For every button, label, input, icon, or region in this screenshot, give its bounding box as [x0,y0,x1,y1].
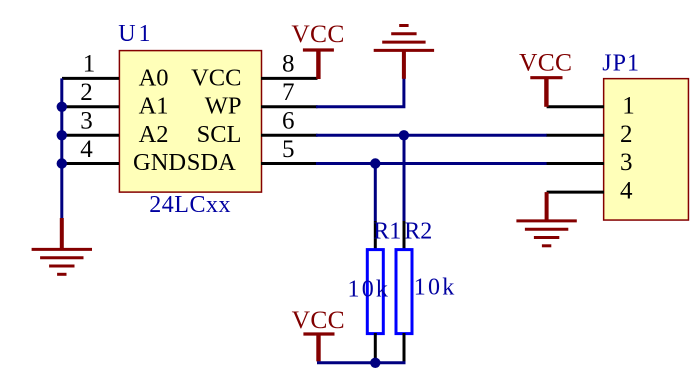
svg-text:10k: 10k [414,275,457,301]
svg-text:4: 4 [620,178,633,205]
component U1 body [119,51,261,193]
svg-text:VCC: VCC [191,64,241,91]
svg-text:7: 7 [282,79,295,106]
ground symbol top (inverted, WP) [374,26,434,79]
svg-text:SCL: SCL [197,121,242,148]
svg-text:JP1: JP1 [602,50,640,76]
JP1 pin 2 stub [547,134,604,137]
power VCC top (U1 pin 8) [291,19,344,79]
svg-text:10k: 10k [348,277,391,303]
ground symbol left [32,218,92,274]
wire R2 upper lead (net part) [403,135,406,221]
svg-text:8: 8 [282,51,295,78]
svg-text:24LCxx: 24LCxx [149,192,231,218]
U1 pin 7 stub [261,105,318,108]
svg-text:WP: WP [205,93,242,120]
svg-text:3: 3 [620,149,633,176]
svg-text:VCC: VCC [519,48,572,77]
svg-text:SDA: SDA [187,149,236,176]
svg-text:A0: A0 [139,64,169,91]
junction bus-pin4 [57,158,67,168]
svg-text:4: 4 [80,136,93,163]
power VCC at JP1 pin 1 [519,48,572,107]
wire R1 upper lead (net part) [374,164,377,222]
svg-text:U1: U1 [118,21,153,47]
JP1 pin 1 stub [547,105,604,108]
junction bottom-R1 [370,358,380,368]
svg-text:GND: GND [133,149,186,176]
JP1 pin 4 stub [547,191,604,194]
resistor R1 body [367,250,383,334]
ground symbol at JP1 pin 4 [516,192,576,246]
JP1 pin 3 stub [547,162,604,165]
junction bus-pin3 [57,130,67,140]
svg-text:1: 1 [83,51,96,78]
svg-text:VCC: VCC [292,305,345,334]
U1 pin 4 stub [62,162,119,165]
svg-text:2: 2 [620,121,633,148]
connector JP1 body [604,79,689,220]
resistor R1 pin top [374,221,377,250]
U1 pin 2 stub [62,105,119,108]
junction bus-pin2 [57,102,67,112]
wire left address bus vertical [60,78,63,219]
svg-text:1: 1 [622,93,635,120]
svg-text:A1: A1 [139,93,169,120]
wire bottom VCC to resistors [319,361,406,363]
power VCC bottom [292,305,345,361]
resistor R2 pin bottom [403,333,406,363]
wire SCL net [316,134,547,137]
wire SDA net [316,162,547,165]
svg-text:VCC: VCC [291,19,344,48]
U1 pin 3 stub [62,134,119,137]
U1 pin 6 stub [261,134,318,137]
svg-text:R1: R1 [373,219,401,245]
junction SCL-R2 [399,130,409,140]
U1 pin 1 stub [62,77,119,80]
svg-text:2: 2 [80,79,93,106]
svg-text:5: 5 [282,136,295,163]
svg-text:3: 3 [80,108,93,135]
wire WP net [316,78,404,106]
svg-text:6: 6 [282,108,295,135]
resistor R2 pin top [403,221,406,250]
svg-text:A2: A2 [139,121,169,148]
resistor R2 body [396,250,412,334]
U1 pin 5 stub [261,162,318,165]
junction SDA-R1 [370,158,380,168]
U1 pin 8 stub [261,77,318,80]
resistor R1 pin bottom [374,333,377,363]
svg-text:R2: R2 [404,219,432,245]
